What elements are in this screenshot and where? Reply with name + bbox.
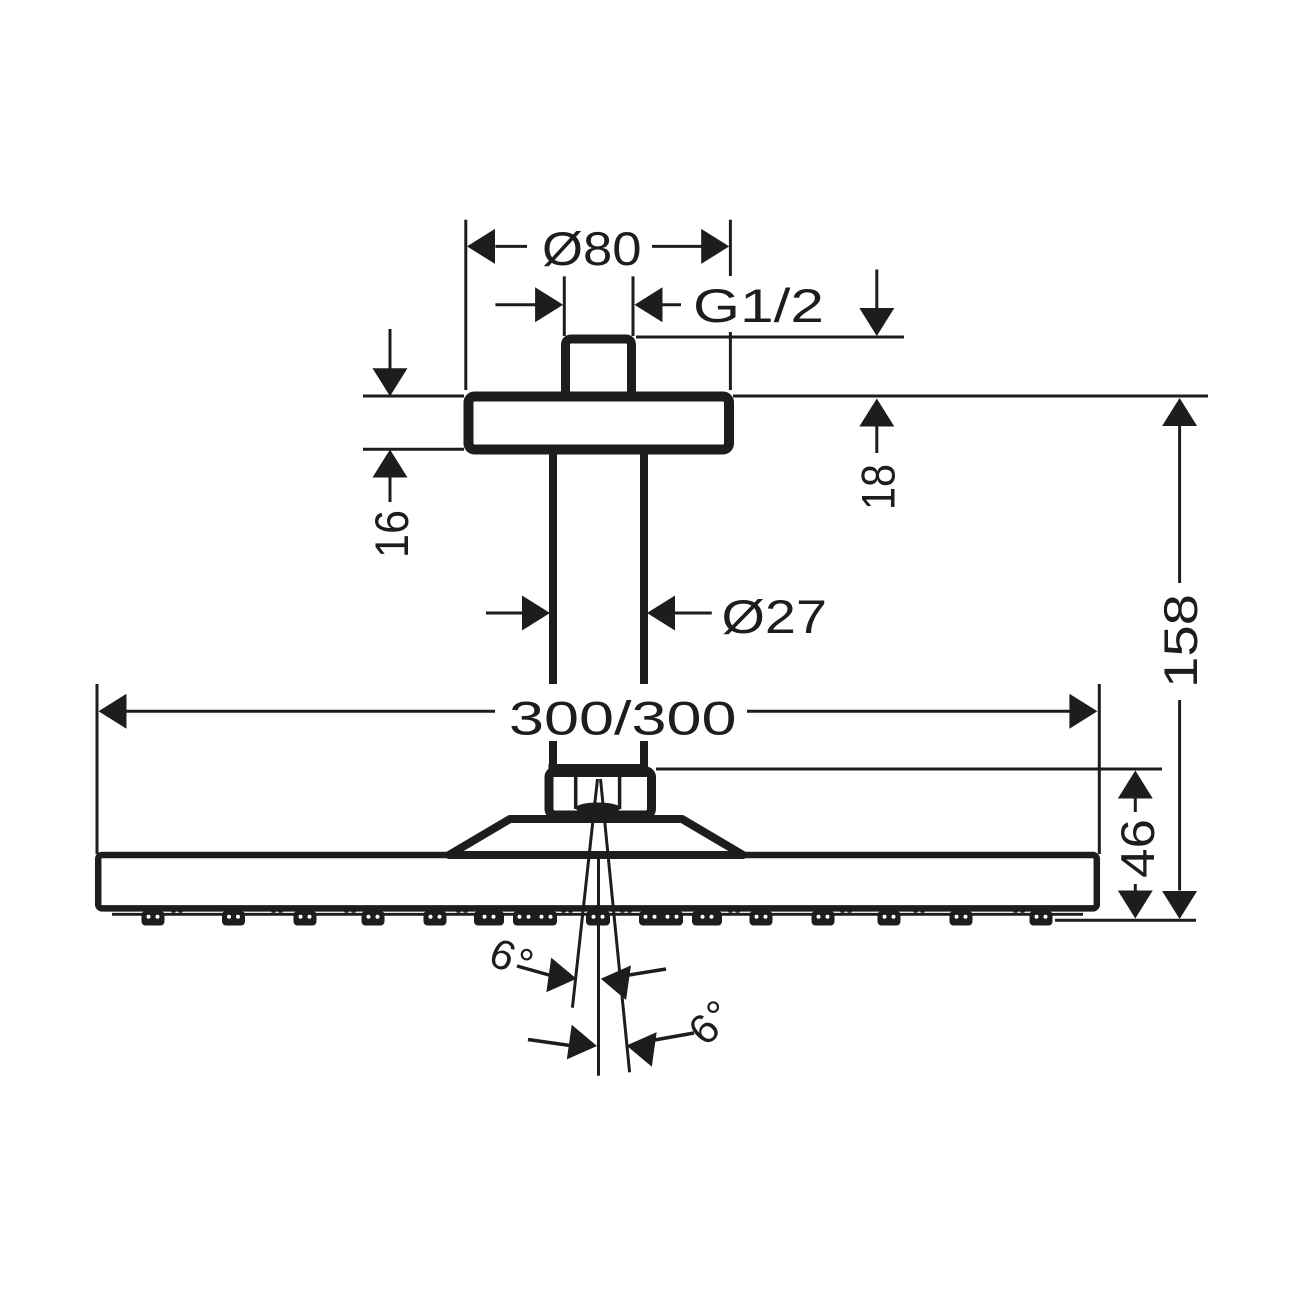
extension line Ø80 left: [464, 220, 467, 390]
dimension 18: [875, 270, 878, 309]
nozzle row mark: [728, 909, 732, 913]
extension line G1/2 right: [632, 276, 635, 336]
nozzle: [950, 911, 973, 926]
svg-text:G1/2: G1/2: [693, 279, 824, 332]
dimension Ø27: [486, 612, 524, 615]
extension line G1/2 left: [563, 276, 566, 336]
extension line head-bottom right: [1055, 919, 1196, 922]
G1/2 stub: [566, 339, 632, 400]
nozzle: [222, 911, 245, 926]
nozzle: [586, 911, 610, 926]
nozzle row mark: [271, 909, 275, 913]
nozzle: [692, 911, 722, 926]
dimension 158: [1162, 398, 1197, 426]
extension line nut-top level right: [656, 768, 1162, 771]
svg-text:300/300: 300/300: [509, 692, 737, 745]
svg-text:46: 46: [1111, 819, 1164, 878]
extension line flange-bottom left: [363, 448, 464, 451]
nozzle: [878, 911, 901, 926]
nozzle: [362, 911, 385, 926]
nozzle: [142, 911, 165, 926]
nut facet line left: [574, 777, 578, 809]
pipe arm left wall: [549, 450, 557, 772]
extension line 300/300 left: [96, 684, 99, 854]
nozzle row mark: [913, 909, 917, 913]
nozzle: [1030, 911, 1053, 926]
nozzle: [812, 911, 835, 926]
cone transition: [449, 819, 743, 855]
nozzle row mark: [171, 909, 175, 913]
extension line Ø80 right: [729, 220, 732, 390]
svg-text:16: 16: [365, 510, 418, 558]
spray line right 6deg: [601, 779, 630, 1072]
nut facet line right: [618, 777, 622, 809]
dimension 6deg upper: [517, 966, 549, 975]
svg-text:Ø27: Ø27: [722, 590, 828, 643]
ceiling flange: [469, 397, 730, 450]
nozzle face line: [112, 913, 1083, 916]
dimension 46: [1118, 771, 1153, 799]
nozzle: [474, 911, 504, 926]
nozzle: [424, 911, 447, 926]
center axis line: [597, 856, 600, 1076]
dimension 300/300: [99, 694, 127, 729]
connector nut body: [549, 771, 652, 815]
dimension G1/2: [495, 303, 536, 306]
nut outlet dish: [576, 803, 621, 814]
nozzle row mark: [620, 909, 624, 913]
extension line 300/300 right: [1098, 684, 1101, 854]
svg-text:Ø80: Ø80: [542, 222, 642, 275]
nozzle row mark: [561, 909, 565, 913]
nozzle row mark: [344, 909, 348, 913]
nozzle row mark: [1013, 909, 1017, 913]
nozzle: [639, 911, 683, 926]
nozzle: [513, 911, 557, 926]
svg-text:158: 158: [1154, 594, 1207, 688]
head body: [98, 855, 1097, 908]
spray line left 6deg: [572, 779, 597, 1008]
nozzle row mark: [840, 909, 844, 913]
nozzle: [750, 911, 773, 926]
extension line ceiling level left: [363, 395, 464, 398]
dimension Ø80: [495, 245, 527, 248]
nozzle row mark: [456, 909, 460, 913]
extension line ceiling level right: [733, 395, 1208, 398]
dimension 16: [389, 329, 392, 369]
extension line stub-top level: [636, 336, 904, 339]
pipe arm right wall: [640, 450, 648, 772]
pipe end bar: [549, 764, 648, 777]
dimension 6deg lower: [528, 1040, 570, 1046]
nozzle: [294, 911, 317, 926]
svg-text:18: 18: [852, 464, 905, 510]
